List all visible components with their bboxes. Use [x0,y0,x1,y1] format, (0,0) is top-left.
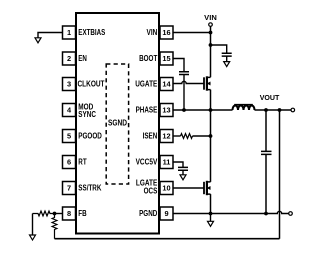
wire pin13 PHASE [173,109,233,111]
resistor R1 FB to ground [33,211,55,216]
pin 9 box [160,207,173,220]
svg-text:15: 15 [162,54,170,63]
svg-text:VIN: VIN [204,13,217,22]
wire PGND to ground arrow [210,214,212,222]
capacitor C4 output [261,151,272,154]
wire VOUT to output cap [265,110,267,151]
inductor L1 [233,106,255,111]
svg-text:VIN: VIN [147,28,158,37]
wire pin9 PGND rail with hop [173,211,289,213]
svg-text:5: 5 [67,132,71,141]
node junction FB divider [53,212,57,216]
pin 10 box [160,182,173,195]
node VIN terminal [209,23,213,27]
wire PHASE to lower MOSFET drain [210,110,212,182]
svg-text:11: 11 [163,158,171,167]
transistor Q1 upper MOSFET [204,76,211,90]
pin 7 box [63,182,76,195]
svg-text:RT: RT [78,158,87,167]
svg-text:10: 10 [162,184,170,193]
wire pin12 ISEN lead [173,135,181,137]
pin 6 box [63,156,76,169]
svg-text:13: 13 [162,106,170,115]
node junction PHASE/FETs [209,108,213,112]
node junction PHASE/boot [182,108,186,112]
pin 15 box [160,52,173,65]
pin 14 box [160,78,173,91]
svg-text:FB: FB [78,209,87,218]
node junction ISEN [209,134,213,138]
transistor Q2 lower MOSFET [204,181,211,195]
wire input cap to ground [226,56,228,62]
svg-text:EN: EN [78,54,87,63]
ground arrow at VCC5V cap [180,175,186,180]
svg-text:PGOOD: PGOOD [78,132,102,141]
wire pin11 VCC5V to cap [173,162,183,167]
capacitor C3 VCC5V [178,167,188,170]
pin 16 box [160,26,173,39]
pin 11 box [160,156,173,169]
wire output cap to PGND rail [265,154,267,213]
wire upper MOSFET source to PHASE [210,90,212,110]
svg-text:SGND: SGND [108,118,127,127]
pin 8 box [63,207,76,220]
svg-text:UGATE: UGATE [135,80,157,89]
svg-text:SS/TRK: SS/TRK [78,184,101,193]
op-amp U1 IC body [76,13,159,234]
wire pin15 BOOT to cap [173,59,184,72]
svg-text:EXTBIAS: EXTBIAS [78,28,105,37]
wire bottom feedback rail [55,238,280,240]
svg-text:1: 1 [67,28,71,37]
pin 3 box [63,78,76,91]
ground arrow at input cap [224,62,230,67]
svg-text:16: 16 [162,28,170,37]
wire VIN vertical rail [210,26,212,77]
wire bootstrap cap to PHASE [183,75,185,111]
wire VOUT feedback sense line [279,110,281,239]
svg-text:6: 6 [67,158,71,167]
node SGND dashed internal box [106,64,128,184]
svg-text:CLKOUT: CLKOUT [78,80,105,89]
svg-text:PGND: PGND [139,209,157,218]
node junction VOUT/feedback [278,108,282,112]
pin 13 box [160,104,173,117]
wire pin8 FB to divider node [55,213,63,215]
node junction VIN/input cap [209,43,213,47]
pin 4 box [63,104,76,117]
wire pin10 LGATE to gate [173,187,204,189]
svg-text:12: 12 [162,132,170,141]
wire EXTBIAS to ground arrow [38,33,63,38]
ground arrow at PGND [208,221,214,226]
svg-text:9: 9 [164,209,168,218]
svg-text:SYNC: SYNC [78,110,96,119]
wire R1 to ground arrow [32,214,34,236]
node ground return terminal [289,212,293,216]
pin 5 box [63,130,76,143]
resistor R2 FB upper leg [52,214,57,239]
resistor R3 ISEN [181,134,193,139]
svg-text:ISEN: ISEN [143,132,158,141]
svg-text:7: 7 [67,184,71,193]
svg-text:OCS: OCS [144,186,158,195]
wire pin16 to VIN rail [173,32,211,34]
node junction VOUT/output cap [264,108,268,112]
wire lower MOSFET source to PGND [210,194,212,213]
svg-text:8: 8 [67,209,71,218]
pin 1 box [63,26,76,39]
pin 12 box [160,130,173,143]
svg-text:VCC5V: VCC5V [136,158,158,167]
capacitor C1 input [222,53,232,56]
svg-text:BOOT: BOOT [139,54,157,63]
wire VOUT rail [255,109,292,111]
wire pin14 UGATE to gate with hop [173,81,204,83]
svg-text:14: 14 [162,80,171,89]
wire ISEN resistor to phase leg [193,135,211,137]
node junction PGND/output cap [264,212,268,216]
ground arrow at FB divider [30,235,36,240]
svg-text:VOUT: VOUT [260,93,280,102]
svg-text:PHASE: PHASE [136,106,158,115]
wire VIN to input capacitor [211,45,227,53]
pin 2 box [63,52,76,65]
node junction VIN/pin16 [209,31,213,35]
node VOUT terminal [291,108,295,112]
svg-text:3: 3 [67,80,71,89]
capacitor C2 bootstrap [179,72,189,75]
node junction PGND/FET source [209,212,213,216]
svg-text:2: 2 [67,54,71,63]
wire VCC5V cap to ground [182,170,184,175]
ground arrow at EXTBIAS [35,38,41,43]
